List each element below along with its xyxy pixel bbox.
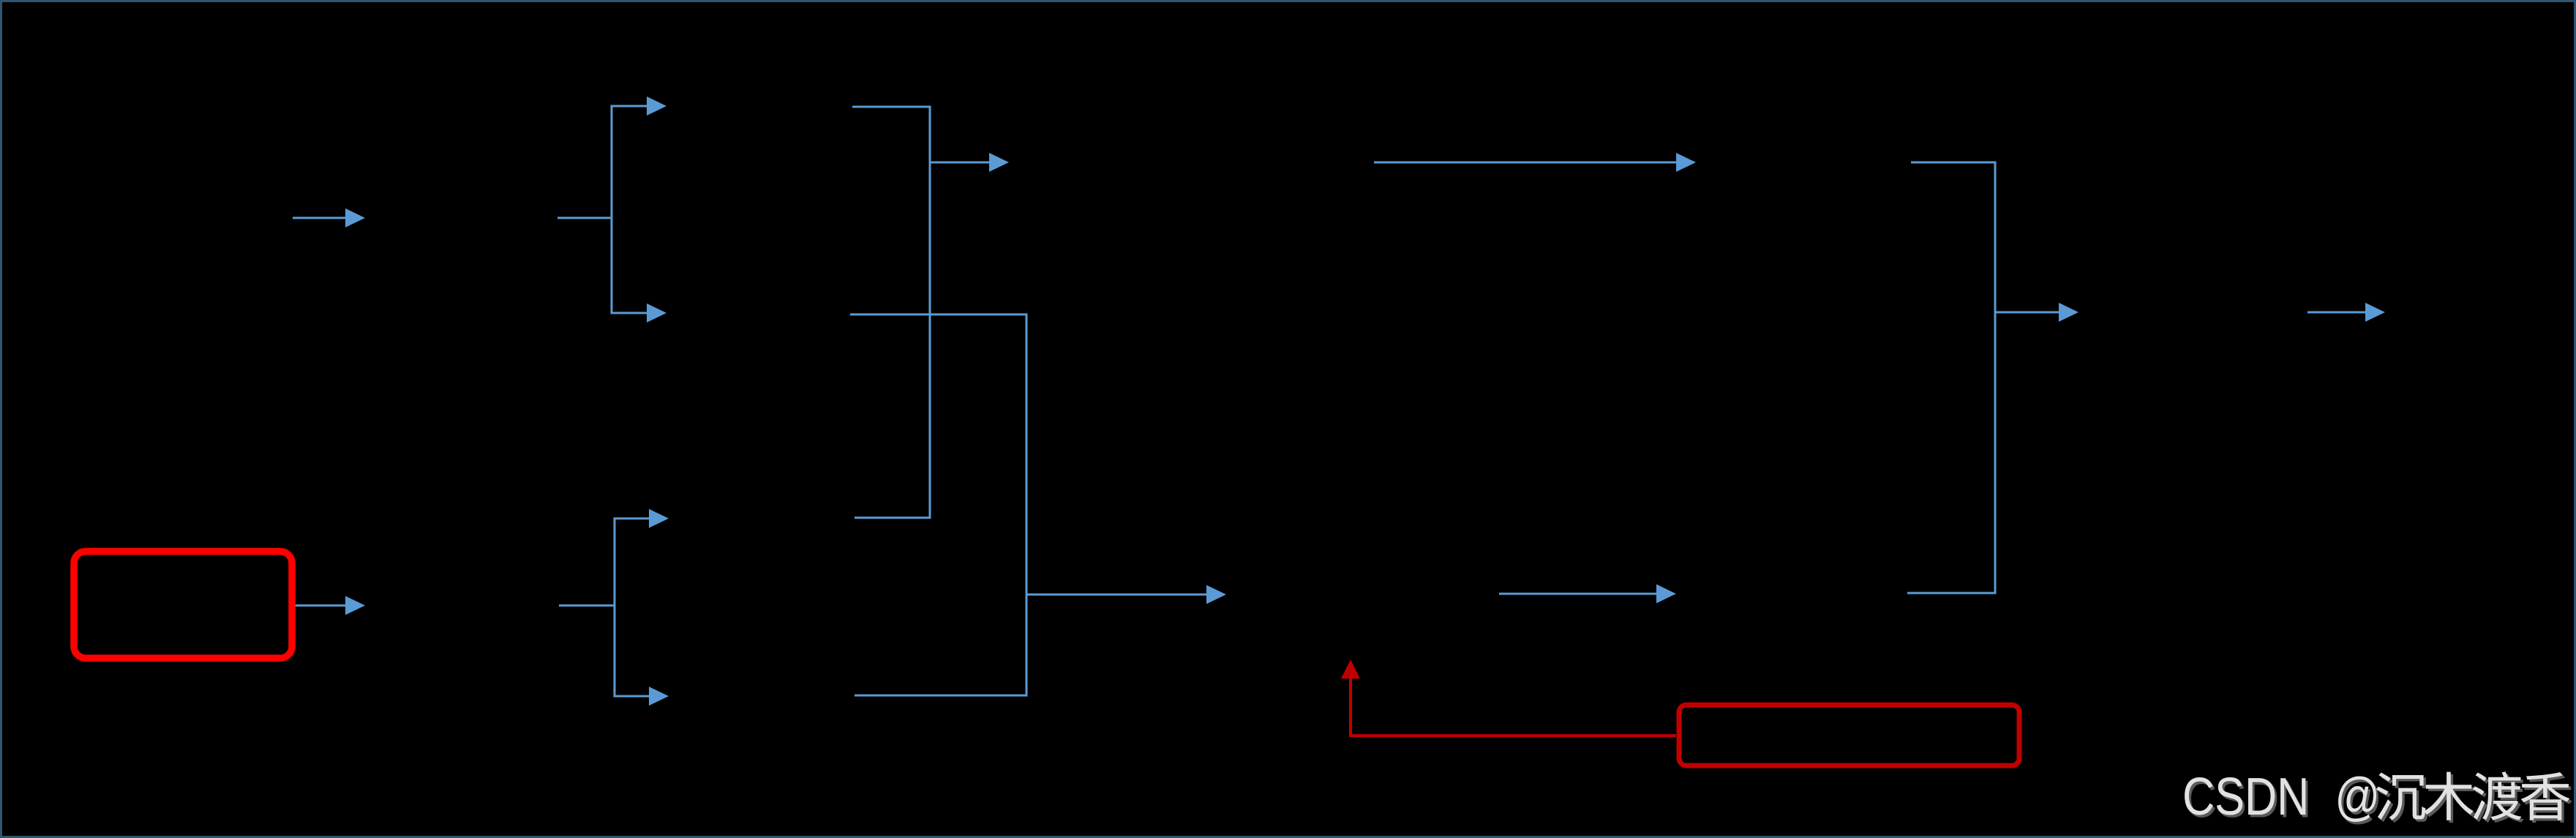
wire: upper branch output arrow shaft bbox=[930, 162, 991, 164]
watermark char 渡 bbox=[2473, 771, 2524, 823]
watermark char 香 bbox=[2521, 772, 2572, 823]
arrowhead: long bottom arrow bbox=[1656, 584, 1676, 603]
arrowhead: red box output bbox=[345, 596, 365, 615]
watermark char 木 bbox=[2424, 772, 2476, 823]
arrowhead: bracket1 bottom bbox=[647, 303, 666, 322]
wire: upper branch top horizontal bbox=[852, 107, 930, 518]
wire: merge output arrow shaft bbox=[1995, 312, 2060, 314]
red box 2 (highlight) bbox=[1679, 705, 2019, 766]
arrowhead: bracket2 bottom bbox=[649, 687, 669, 706]
arrowhead: merge output bbox=[2059, 303, 2079, 322]
wire: stage1 arrow shaft bbox=[293, 217, 347, 219]
wire: lower branch output arrow shaft bbox=[1026, 594, 1208, 596]
red box 1 (highlight) bbox=[74, 551, 292, 658]
svg-text:CSDN: CSDN bbox=[2182, 768, 2309, 826]
wire: lower branch horizontal + vertical bbox=[850, 314, 1026, 695]
wire: red box output arrow shaft bbox=[295, 605, 347, 607]
wire: input to bracket 1 bbox=[557, 217, 612, 219]
arrowhead: stage1 bbox=[345, 208, 365, 227]
arrowhead: lower branch output bbox=[1206, 585, 1226, 604]
wire: long bottom arrow shaft bbox=[1499, 593, 1658, 595]
wire: input to bracket 2 bbox=[559, 605, 615, 607]
arrowhead: final output bbox=[2365, 303, 2385, 322]
red feedback arrow bbox=[1351, 677, 1676, 736]
wire: final output arrow shaft bbox=[2307, 312, 2367, 314]
arrowhead: bracket1 top bbox=[647, 97, 666, 116]
wire: long top arrow shaft bbox=[1374, 162, 1678, 164]
watermark CSDN @ bbox=[2182, 768, 2382, 828]
red feedback arrowhead bbox=[1341, 660, 1360, 679]
watermark char 沉 bbox=[2376, 773, 2428, 823]
wire: merge bracket top input bbox=[1907, 162, 1995, 593]
arrowhead: upper branch output bbox=[989, 153, 1009, 172]
bracket 1 vertical bbox=[612, 106, 647, 313]
arrowhead: long top arrow bbox=[1676, 153, 1696, 172]
bracket 2 vertical bbox=[615, 518, 649, 696]
svg-text:@: @ bbox=[2335, 768, 2380, 826]
arrowhead: bracket2 top bbox=[649, 509, 669, 528]
